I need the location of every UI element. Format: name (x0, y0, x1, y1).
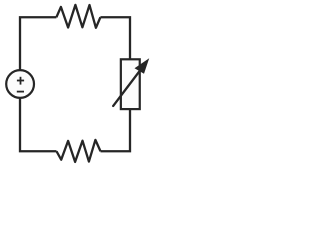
circuit schematic: source + fixed resistors + variable resistor loop (0, 0, 191, 172)
resistor R1 (top zigzag) (56, 5, 100, 28)
minus sign of source (17, 91, 24, 93)
plus sign of source (17, 77, 24, 85)
arrow shaft through variable resistor (113, 65, 144, 106)
wire: top rail right + right rail upper (100, 17, 130, 59)
arrowhead of variable resistor (135, 58, 150, 73)
variable resistor R3 (rectangle body) (121, 59, 140, 109)
wire: left rail upper + top rail left (20, 17, 56, 71)
voltage source V1 (circle) (6, 70, 34, 98)
wire: bottom rail left + left rail lower (20, 98, 57, 151)
wire: right rail lower + bottom rail right (101, 109, 131, 151)
resistor R2 (bottom zigzag) (57, 140, 101, 162)
